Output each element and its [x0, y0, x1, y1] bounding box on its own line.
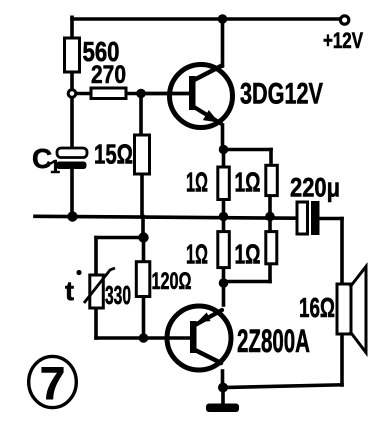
- svg-text:7: 7: [40, 357, 66, 409]
- svg-text:1Ω: 1Ω: [186, 167, 208, 198]
- svg-text:t: t: [65, 276, 74, 306]
- svg-text:2Z800A: 2Z800A: [237, 323, 310, 359]
- svg-text:1Ω: 1Ω: [186, 239, 208, 270]
- svg-text:15Ω: 15Ω: [94, 139, 133, 170]
- svg-text:330: 330: [105, 280, 131, 310]
- svg-text:16Ω: 16Ω: [299, 292, 335, 323]
- svg-text:1: 1: [50, 157, 60, 177]
- svg-text:220μ: 220μ: [290, 173, 340, 203]
- svg-text:+12V: +12V: [323, 28, 363, 53]
- svg-text:1Ω: 1Ω: [235, 239, 261, 270]
- svg-text:270: 270: [91, 61, 126, 89]
- svg-text:1Ω: 1Ω: [235, 167, 261, 198]
- svg-text:3DG12V: 3DG12V: [240, 78, 323, 111]
- svg-text:120Ω: 120Ω: [152, 268, 192, 295]
